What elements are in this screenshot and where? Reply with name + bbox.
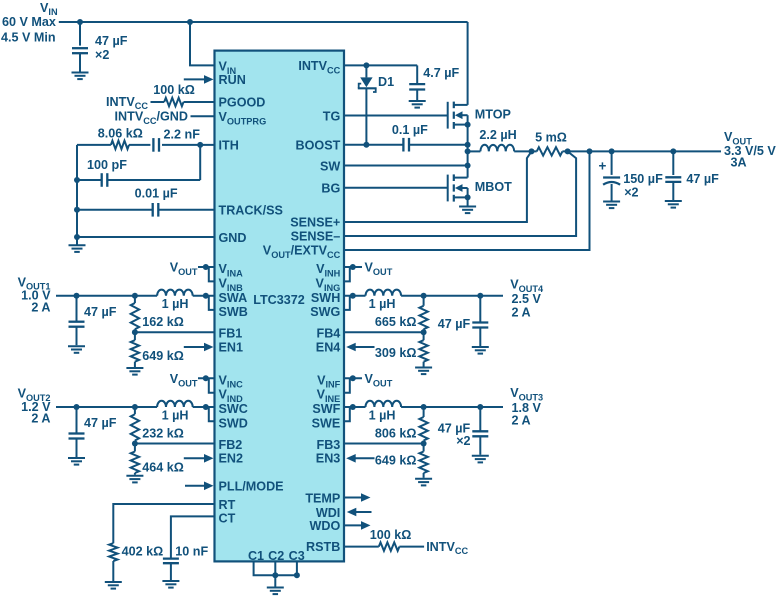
svg-text:162 kΩ: 162 kΩ <box>142 315 184 329</box>
svg-text:5 mΩ: 5 mΩ <box>535 130 567 144</box>
ground <box>162 580 179 582</box>
svg-text:INTVCC​/GND: INTVCC​/GND <box>115 110 188 126</box>
capacitor 47uF 2 <box>69 407 117 457</box>
svg-text:309 kΩ: 309 kΩ <box>375 346 417 360</box>
svg-text:BOOST: BOOST <box>296 139 341 153</box>
svg-text:VOUT​: VOUT​ <box>365 261 393 277</box>
arrow WDO output <box>344 524 362 526</box>
svg-text:EN3: EN3 <box>316 452 341 466</box>
svg-text:EN1: EN1 <box>219 340 244 354</box>
ground <box>472 455 489 457</box>
inductor 2.2uH <box>468 128 537 151</box>
svg-text:VOUT​: VOUT​ <box>170 372 198 388</box>
svg-text:+: + <box>599 159 607 174</box>
svg-text:0.01 µF: 0.01 µF <box>135 187 178 201</box>
resistor 232 kΩ FB2 top <box>131 407 184 444</box>
svg-text:CT: CT <box>219 511 236 525</box>
wire SW output 2 <box>56 404 209 410</box>
svg-text:SW: SW <box>320 159 340 173</box>
svg-text:2 A: 2 A <box>512 305 531 319</box>
svg-text:ITH: ITH <box>219 139 239 153</box>
svg-text:C1: C1 <box>248 549 264 563</box>
svg-text:MBOT: MBOT <box>475 180 512 194</box>
capacitor 10nF CT <box>163 516 215 580</box>
svg-text:WDI: WDI <box>316 506 340 520</box>
svg-text:RT: RT <box>219 498 236 512</box>
svg-text:4.7 µF: 4.7 µF <box>423 66 459 80</box>
ground <box>105 581 122 583</box>
capacitor 47uF 1 <box>69 296 117 345</box>
resistor 649 kΩ FB1 bottom <box>131 332 184 367</box>
arrow RUN input <box>184 78 205 80</box>
resistor 402k RT <box>109 504 214 581</box>
IC U1 LTC3372 body <box>215 51 345 562</box>
wire FB2 <box>132 441 215 447</box>
ground <box>665 200 682 202</box>
capacitor CIN 47uF x2 <box>72 22 128 72</box>
node VOUT feed 2 <box>170 372 215 393</box>
svg-text:EN2: EN2 <box>219 452 244 466</box>
node VOUT output label <box>724 130 776 169</box>
wire BG to MBOT gate <box>344 187 448 189</box>
svg-text:1 µH: 1 µH <box>369 408 396 422</box>
svg-text:4.5 V Min: 4.5 V Min <box>1 30 56 44</box>
svg-text:2 A: 2 A <box>31 412 50 426</box>
svg-text:1 µH: 1 µH <box>162 297 189 311</box>
capacitor 47uF 4 <box>438 296 489 346</box>
node VOUT4 output label <box>510 277 544 319</box>
resistor 665 kΩ FB4 top <box>375 296 428 332</box>
svg-text:47 µF: 47 µF <box>84 416 117 430</box>
svg-text:VOUT​: VOUT​ <box>170 261 198 277</box>
resistor 649 kΩ FB3 bottom <box>375 444 428 478</box>
arrow EN3 input <box>355 457 375 459</box>
inductor 1uH 3 <box>366 401 504 423</box>
svg-text:TG: TG <box>323 109 341 123</box>
arrow PLL/MODE input <box>185 485 205 487</box>
wire SW hook 4 <box>344 296 350 310</box>
wire SW pin <box>344 165 468 167</box>
svg-text:SWF: SWF <box>312 402 340 416</box>
ground <box>126 475 143 477</box>
ground <box>472 346 489 348</box>
wire SWH/F 3 <box>344 404 366 410</box>
wire SENSE- route <box>344 151 576 236</box>
svg-text:100 kΩ: 100 kΩ <box>370 528 412 542</box>
ground <box>415 478 432 480</box>
ground <box>409 100 426 102</box>
svg-text:FB3: FB3 <box>317 438 341 452</box>
capacitor 2.2nF ITH <box>153 128 200 152</box>
wire INTVCC pin net <box>344 62 417 83</box>
svg-text:SENSE+: SENSE+ <box>290 215 340 229</box>
wire VIN to pin <box>190 22 215 65</box>
diode D1 schottky <box>358 65 394 144</box>
svg-text:3A: 3A <box>731 156 747 170</box>
svg-text:LTC3372: LTC3372 <box>253 293 305 307</box>
svg-text:10 nF: 10 nF <box>175 544 208 558</box>
svg-text:PGOOD: PGOOD <box>219 95 266 109</box>
svg-text:60 V Max: 60 V Max <box>2 15 56 29</box>
svg-text:649 kΩ: 649 kΩ <box>142 349 184 363</box>
svg-text:GND: GND <box>219 231 247 245</box>
svg-text:649 kΩ: 649 kΩ <box>375 454 417 468</box>
node VOUT1 output label <box>18 275 52 314</box>
inductor 1uH 4 <box>366 290 504 312</box>
wire SWB hook 2 <box>209 407 215 421</box>
resistor 162 kΩ FB1 top <box>131 296 184 332</box>
svg-text:SWG: SWG <box>310 305 340 319</box>
node VOUT2 output label <box>18 387 52 426</box>
node VOUT3 output label <box>510 386 543 428</box>
node VOUT feed 3 <box>344 372 393 393</box>
node INTVCC/GND label VOUTPRG <box>115 110 215 126</box>
ground <box>415 367 432 369</box>
inductor 1uH 1 <box>157 290 214 312</box>
svg-text:665 kΩ: 665 kΩ <box>375 315 417 329</box>
svg-text:VOUT​: VOUT​ <box>365 372 393 388</box>
capacitor 47uF 3 <box>438 407 489 455</box>
svg-text:BG: BG <box>321 182 340 196</box>
wire VIN rail to MTOP drain <box>467 22 469 105</box>
capacitor 0.01uF TRACK/SS <box>77 187 215 217</box>
svg-text:1 µH: 1 µH <box>369 297 396 311</box>
svg-text:×2: ×2 <box>456 434 470 448</box>
wire VOUT output line <box>529 148 722 154</box>
svg-text:RUN: RUN <box>219 73 246 87</box>
arrow EN2 input <box>184 457 205 459</box>
svg-text:SWE: SWE <box>312 416 341 430</box>
svg-text:2.2 µH: 2.2 µH <box>479 128 516 142</box>
wire ITH net <box>74 142 215 245</box>
arrow WDI input <box>355 511 371 513</box>
resistor 806 kΩ FB3 top <box>375 407 428 444</box>
wire SENSE+ route <box>344 151 532 222</box>
svg-text:SWB: SWB <box>219 305 248 319</box>
svg-text:100 pF: 100 pF <box>87 158 127 172</box>
ground <box>603 201 620 203</box>
resistor 8.06k ITH <box>98 127 151 150</box>
wire SWB hook 1 <box>209 296 215 310</box>
node VIN input label <box>1 1 58 45</box>
svg-text:FB1: FB1 <box>219 327 243 341</box>
svg-text:TEMP: TEMP <box>305 491 340 505</box>
svg-text:×2: ×2 <box>624 186 638 200</box>
svg-text:47 µF: 47 µF <box>84 305 117 319</box>
wire GND pin <box>77 236 215 238</box>
ground <box>126 367 143 369</box>
svg-text:FB4: FB4 <box>317 327 341 341</box>
svg-text:INTVCC​: INTVCC​ <box>426 540 468 556</box>
wire SWH/F 4 <box>344 293 366 299</box>
wire VIN rail <box>59 19 468 25</box>
svg-text:47 µF: 47 µF <box>438 317 471 331</box>
svg-text:0.1 µF: 0.1 µF <box>392 123 428 137</box>
svg-text:SWH: SWH <box>311 291 340 305</box>
svg-text:1 µH: 1 µH <box>162 408 189 422</box>
wire C1 C2 C3 net <box>254 561 300 586</box>
svg-text:SWD: SWD <box>219 416 248 430</box>
wire SW node vertical <box>465 125 471 178</box>
ground <box>72 72 89 74</box>
wire FB4 <box>344 329 427 335</box>
capacitor 150uF x2 output <box>599 151 664 200</box>
wire SW hook 3 <box>344 407 350 421</box>
svg-text:47 µF: 47 µF <box>686 172 719 186</box>
svg-text:232 kΩ: 232 kΩ <box>142 426 184 440</box>
resistor 100k PGOOD pullup <box>106 83 214 111</box>
resistor 309 kΩ FB4 bottom <box>375 332 428 366</box>
inductor 1uH 2 <box>157 401 214 423</box>
ground <box>68 457 85 459</box>
svg-text:2.5 V: 2.5 V <box>512 292 542 306</box>
ground <box>68 345 85 347</box>
wire FB1 <box>132 329 215 335</box>
svg-text:C3: C3 <box>289 549 305 563</box>
ground <box>69 244 86 246</box>
svg-text:806 kΩ: 806 kΩ <box>375 426 417 440</box>
svg-text:C2: C2 <box>268 549 284 563</box>
svg-text:8.06 kΩ: 8.06 kΩ <box>98 127 143 141</box>
arrow EN1 input <box>184 346 205 348</box>
svg-text:2.2 nF: 2.2 nF <box>164 128 201 142</box>
wire TG to MTOP gate <box>344 115 448 117</box>
svg-text:MTOP: MTOP <box>475 107 511 121</box>
capacitor 4.7uF INTVCC <box>409 66 459 100</box>
wire VOUT/EXTVCC route <box>344 151 590 250</box>
svg-text:TRACK/SS: TRACK/SS <box>219 204 283 218</box>
svg-text:PLL/MODE: PLL/MODE <box>219 480 284 494</box>
ground <box>267 587 284 589</box>
svg-text:D1: D1 <box>378 75 394 89</box>
node VOUT feed 1 <box>170 261 215 282</box>
capacitor 47uF output <box>665 151 719 200</box>
resistor 100k RSTB <box>344 528 469 556</box>
arrow TEMP output <box>344 497 362 499</box>
svg-text:RSTB: RSTB <box>306 540 340 554</box>
transistor MBOT NMOS <box>448 174 512 205</box>
capacitor 0.1uF BOOST <box>344 123 468 151</box>
node VOUT feed 4 <box>344 261 393 282</box>
svg-text:2 A: 2 A <box>31 300 50 314</box>
svg-text:WDO: WDO <box>310 519 341 533</box>
svg-text:×2: ×2 <box>95 48 109 62</box>
arrow EN4 input <box>355 346 375 348</box>
svg-text:47 µF: 47 µF <box>95 34 128 48</box>
svg-text:464 kΩ: 464 kΩ <box>142 460 184 474</box>
svg-text:SWA: SWA <box>219 291 248 305</box>
wire FB3 <box>344 441 427 447</box>
resistor 5 milliohm sense <box>535 130 567 155</box>
ground <box>459 206 476 208</box>
wire SW output 1 <box>56 293 209 299</box>
transistor MTOP NMOS <box>448 102 511 129</box>
svg-text:EN4: EN4 <box>316 340 341 354</box>
resistor 464 kΩ FB2 bottom <box>131 444 184 475</box>
svg-text:100 kΩ: 100 kΩ <box>153 83 195 97</box>
svg-text:402 kΩ: 402 kΩ <box>122 544 164 558</box>
svg-text:2 A: 2 A <box>512 414 531 428</box>
svg-text:150 µF: 150 µF <box>623 172 663 186</box>
svg-text:SENSE–: SENSE– <box>291 229 341 243</box>
capacitor 100pF ITH <box>77 158 200 187</box>
svg-text:SWC: SWC <box>219 402 248 416</box>
svg-text:FB2: FB2 <box>219 438 243 452</box>
